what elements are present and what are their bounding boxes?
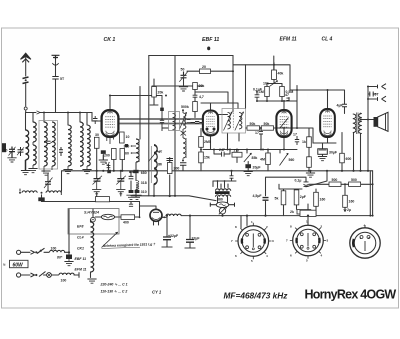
resistor (CL4 grid leak) — [307, 137, 312, 148]
wire dropper coil top — [90, 220, 92, 222]
wire dropper coil bottom — [90, 272, 92, 278]
capacitor (osc coupling blob) — [107, 170, 111, 173]
resistor 500 no.1 — [329, 182, 341, 186]
wire audio pot ground — [247, 162, 249, 171]
wire dropper box drop — [68, 209, 70, 253]
capacitor 4.7 (line) — [129, 204, 133, 206]
node junctions detector row — [260, 127, 262, 129]
ground — [116, 190, 125, 194]
resistor 20k (osc) — [152, 87, 157, 98]
wire divider top — [267, 63, 282, 87]
mains choke 2 — [46, 191, 61, 193]
wire osc core drop — [139, 87, 141, 140]
svg-text:220-240 ∿ ... C 1: 220-240 ∿ ... C 1 — [100, 283, 128, 287]
resistor 5k — [281, 191, 286, 205]
svg-text:310: 310 — [141, 190, 147, 194]
potentiometer volume arrow — [244, 153, 252, 162]
tube EFM11 — [276, 110, 291, 137]
svg-text:200: 200 — [104, 154, 110, 158]
wire mains filter line — [42, 202, 140, 205]
trimmer arrow — [149, 151, 158, 162]
svg-text:100: 100 — [51, 247, 57, 251]
svg-text:400: 400 — [123, 221, 129, 225]
plug row 2 — [17, 273, 21, 277]
wire speaker jack line — [361, 87, 377, 171]
svg-text:50k: 50k — [264, 122, 270, 126]
antenna 1 plug — [24, 107, 27, 110]
wire CL4 bottom — [297, 128, 336, 171]
capacitor 30uF — [318, 149, 328, 155]
ground — [244, 172, 253, 176]
coil (osc feedback) — [136, 181, 139, 190]
wire chassis bus — [62, 170, 373, 172]
svg-text:680: 680 — [141, 171, 147, 175]
node tap stubs — [132, 146, 137, 153]
ground — [87, 279, 96, 283]
wire socket feed stubs — [241, 204, 308, 228]
capacitor (osc tank) — [133, 170, 138, 173]
coil osc primary — [173, 114, 176, 130]
svg-text:47: 47 — [285, 93, 289, 97]
svg-text:110-130 ∿ ... C 2: 110-130 ∿ ... C 2 — [101, 290, 128, 294]
resistor (CL4 cathode) — [307, 157, 312, 168]
headphone jack 2 — [378, 96, 387, 102]
wire coil stubs — [26, 113, 88, 131]
wire dial lamp drop — [222, 214, 224, 216]
ground — [318, 157, 327, 161]
coil osc tank — [136, 139, 139, 162]
wire input coil top bus — [40, 112, 88, 114]
socket 2 pin numbers — [286, 220, 329, 263]
wire CK1 mixer lines to EBF11 — [119, 118, 204, 120]
wire heater rail — [131, 196, 216, 201]
resistor 15k — [199, 152, 204, 163]
socket 3 pin numbers — [360, 224, 371, 241]
capacitor 302 — [129, 172, 134, 179]
wire CL4 grid feed — [290, 86, 345, 144]
trimmer capacitor (IF adj 1) — [94, 179, 101, 182]
coil IF1 primary — [228, 113, 231, 129]
headphone jack 1 — [378, 84, 387, 90]
node dot EBF11 — [207, 47, 210, 51]
oscillator transformer box — [169, 112, 180, 131]
wire trimmer feeds — [97, 171, 137, 197]
wire filter cap 2 leads — [189, 216, 191, 248]
svg-text:100: 100 — [61, 279, 67, 283]
svg-text:32µF: 32µF — [192, 237, 201, 241]
wire CK1 grid — [88, 113, 102, 122]
svg-text:EFM 11: EFM 11 — [280, 37, 297, 43]
svg-text:500: 500 — [351, 178, 357, 182]
svg-text:10k: 10k — [263, 82, 269, 86]
resistor 300 — [167, 163, 172, 174]
wire decoupling rail — [309, 184, 373, 195]
capacitor 17 — [259, 131, 263, 134]
svg-text:30: 30 — [158, 163, 162, 167]
svg-text:500: 500 — [332, 178, 338, 182]
resistor 4M — [266, 153, 271, 165]
trimmer capacitor 50 — [181, 72, 187, 78]
svg-text:20k: 20k — [199, 84, 205, 88]
wire osc grid line — [152, 79, 203, 87]
resistor 160 no.1 — [314, 192, 319, 206]
capacitor (line to chassis) — [66, 255, 72, 260]
capacitor 47 — [193, 95, 198, 97]
ground — [41, 171, 50, 175]
coil L6 — [80, 122, 83, 166]
svg-text:277: 277 — [234, 149, 240, 153]
wire antenna 2 lead-in — [55, 60, 57, 113]
socket EBF11/EFM11 pinout — [235, 223, 271, 259]
svg-text:CL4: CL4 — [77, 236, 84, 240]
svg-text:CY 1: CY 1 — [152, 290, 162, 295]
ground — [132, 195, 141, 199]
resistor 10k (CK1 screen) — [120, 132, 125, 143]
svg-text:15k: 15k — [204, 156, 210, 160]
ground — [92, 190, 101, 194]
rectifier CY1 — [150, 209, 162, 221]
capacitor 5T (jack) — [370, 92, 373, 97]
wire screen feed — [187, 70, 233, 72]
coil L3 — [44, 122, 47, 166]
trimmer capacitor (IF adj 2) — [117, 179, 124, 182]
wire — [119, 123, 204, 125]
coil L2b — [33, 145, 36, 165]
capacitor 32uF no.2 — [186, 240, 194, 243]
svg-text:30: 30 — [95, 133, 99, 137]
resistor 2k5 (socket feed) — [300, 210, 316, 216]
switch lamp row 2 — [39, 272, 46, 277]
ground — [28, 169, 37, 173]
ground — [82, 170, 91, 174]
svg-text:2k: 2k — [290, 210, 294, 214]
capacitor 247 — [214, 152, 230, 157]
potentiometer 560 — [280, 154, 289, 166]
svg-text:2M5: 2M5 — [204, 140, 211, 144]
trimmer cross — [181, 131, 187, 136]
shield box (band filter) — [39, 121, 58, 170]
tube CL4 — [320, 109, 335, 137]
svg-text:30µF: 30µF — [329, 151, 338, 155]
selector arrow — [102, 232, 118, 247]
wire switch row 2 — [21, 273, 79, 278]
capacitor 2uF (box) — [294, 190, 299, 205]
resistor 2M5 — [199, 137, 204, 148]
dropper box SHYB24 — [68, 209, 119, 234]
trimmer capacitor (aerial pad) — [18, 147, 24, 156]
svg-text:50k: 50k — [250, 122, 256, 126]
capacitor (osc pad) — [59, 147, 63, 156]
svg-text:0,1M: 0,1M — [256, 90, 264, 94]
resistor 50k (diode load 2) — [261, 126, 273, 130]
wire IF1 B+ drop — [245, 65, 247, 109]
svg-text:60W: 60W — [13, 262, 25, 268]
wire ballast links — [93, 209, 140, 218]
node junctions chassis bus left — [96, 170, 98, 172]
wire AVC bus — [257, 97, 297, 111]
wire long vertical — [174, 56, 176, 196]
wire osc bottoms — [136, 158, 170, 197]
svg-text:CL 4: CL 4 — [322, 37, 333, 43]
svg-text:330: 330 — [124, 144, 130, 148]
resistor 30 (CK1 bias) — [94, 137, 99, 148]
capacitor 5T (antenna 2) — [52, 77, 58, 80]
svg-text:+32µF: +32µF — [168, 234, 179, 238]
antenna 1 connector break — [23, 77, 29, 84]
node junctions AF bus — [200, 149, 202, 151]
svg-text:4,5µF: 4,5µF — [253, 194, 263, 198]
coil 100 row 1 — [50, 250, 65, 252]
potentiometer arrow — [270, 81, 278, 86]
svg-text:560: 560 — [289, 158, 295, 162]
capacitor 277 (box) — [232, 152, 242, 157]
capacitor grid CK1 — [93, 116, 98, 124]
svg-text:4M: 4M — [260, 158, 265, 162]
trimmer capacitor (mains) — [45, 182, 51, 185]
wire volume bus — [203, 136, 297, 163]
resistor 0.1M — [265, 87, 270, 97]
resistor 200 — [112, 149, 117, 160]
capacitor 20uF — [245, 164, 251, 168]
svg-text:CK1: CK1 — [77, 247, 84, 251]
node junctions screen divider — [283, 100, 285, 102]
capacitor 0.1uF (CK1 cathode) — [101, 150, 106, 154]
tube EBF11 — [203, 111, 218, 136]
svg-text:EFM 11: EFM 11 — [75, 268, 87, 272]
speaker — [374, 117, 378, 127]
node CK1 anode — [109, 95, 111, 97]
svg-text:1k: 1k — [302, 140, 306, 144]
capacitor (filter coupling) — [44, 141, 52, 143]
svg-text:20µF: 20µF — [253, 166, 262, 170]
capacitor 4.7 (padder) — [107, 166, 111, 168]
wire ground stub right — [310, 171, 312, 173]
svg-text:318: 318 — [141, 181, 147, 185]
svg-text:5k: 5k — [275, 197, 279, 201]
capacitor 0.1uF (tone) — [304, 179, 309, 186]
capacitor series (padder) — [167, 159, 174, 161]
resistor 5M — [193, 102, 198, 112]
socket CY1 pinout — [350, 225, 380, 258]
antenna 1 — [21, 53, 31, 59]
capacitor 4.5uF — [263, 198, 269, 201]
capacitor 0.1uF (AVC) — [255, 91, 260, 101]
svg-text:17: 17 — [255, 131, 259, 135]
capacitor grid EBF11 — [191, 122, 204, 124]
svg-text:247: 247 — [219, 148, 225, 152]
ground — [126, 195, 135, 199]
svg-text:HornyRex 4OGW: HornyRex 4OGW — [305, 287, 397, 301]
svg-text:17: 17 — [293, 133, 297, 137]
resistor 20k — [193, 83, 198, 90]
resistor (line filter box) — [96, 197, 110, 202]
wire detector row — [228, 101, 298, 150]
coil IF1 secondary — [239, 113, 242, 129]
svg-text:80*: 80* — [57, 256, 63, 260]
svg-text:50: 50 — [181, 68, 185, 72]
svg-text:4,7: 4,7 — [105, 162, 110, 166]
wire CK1 cathode stubs — [97, 148, 123, 171]
tuning arrows IF1 — [224, 112, 244, 131]
capacitor 4uF (to output) — [342, 104, 347, 107]
svg-text:2µ: 2µ — [347, 208, 351, 212]
svg-text:0,1µ: 0,1µ — [295, 179, 302, 183]
coil L1 aerial primary — [26, 130, 29, 160]
svg-text:360: 360 — [217, 198, 223, 202]
wire transformer bottom stubs — [210, 181, 234, 205]
heater transformer — [216, 189, 231, 191]
pilot lamp — [91, 217, 96, 222]
node dots — [129, 171, 131, 173]
wire CY1 cathode — [154, 217, 167, 225]
resistor 400 — [121, 215, 135, 220]
svg-text:40k: 40k — [278, 72, 284, 76]
capacitor (hum) — [230, 176, 234, 178]
ground (output line) — [306, 173, 315, 177]
coil L7 — [87, 125, 90, 166]
wire EFM11 cathode — [268, 137, 284, 171]
mains choke 1 — [22, 191, 37, 193]
svg-text:CK 1: CK 1 — [104, 37, 116, 43]
svg-text:20: 20 — [202, 65, 206, 69]
lamp box 60W — [10, 260, 29, 267]
wire filter cap 1 leads — [166, 216, 168, 247]
switch row 1 — [37, 248, 45, 253]
node junctions HT bus — [221, 215, 223, 217]
resistor 50k (diode load 1) — [247, 126, 260, 130]
wire B+ upper rail — [233, 56, 290, 90]
wire HT bus — [181, 215, 372, 217]
node junctions chassis bus right — [308, 170, 310, 172]
svg-text:2µF: 2µF — [300, 195, 307, 199]
ground — [25, 160, 27, 170]
svg-text:50: 50 — [4, 149, 8, 153]
ground — [7, 158, 16, 162]
wire output B+ drop pair — [370, 171, 372, 216]
coil osc tank lower — [183, 138, 186, 158]
coil padding — [154, 145, 157, 184]
IF transformer 1 box — [222, 109, 246, 134]
capacitor 47 — [286, 98, 289, 100]
wire CK1 anode to osc transformer — [110, 96, 162, 110]
svg-text:10: 10 — [126, 135, 130, 139]
tube CK1 — [102, 110, 119, 137]
coil L4 — [52, 122, 55, 166]
wire shield box left edge — [148, 56, 150, 196]
output transformer — [353, 114, 356, 133]
ground — [63, 170, 72, 174]
wire transformer top stubs — [213, 171, 236, 188]
svg-text:EBF 11: EBF 11 — [75, 257, 87, 261]
svg-text:EBF 11: EBF 11 — [202, 37, 219, 43]
ballast lamp — [101, 214, 114, 219]
wire shield box top edge — [149, 56, 233, 112]
resistor 0.5M — [280, 87, 285, 97]
svg-text:600: 600 — [346, 157, 352, 161]
trimmer capacitor 50 (far left) — [9, 147, 15, 158]
capacitor 310 blob — [135, 190, 140, 193]
wire output transformer legs — [342, 133, 361, 171]
resistor (osc grid) — [120, 149, 125, 160]
scale lamp oval — [216, 202, 228, 208]
svg-text:MF=468/473 kHz: MF=468/473 kHz — [224, 291, 289, 301]
svg-text:60: 60 — [125, 151, 129, 155]
dropper tapped coil — [91, 222, 94, 272]
capacitor 318 blob — [129, 190, 134, 193]
dial lamp — [219, 208, 225, 214]
tube pins CK1 — [107, 137, 114, 144]
resistor 40k — [272, 70, 277, 80]
resistor 600 — [340, 153, 345, 163]
wire EBF11 plate — [218, 114, 228, 116]
magic eye line — [280, 118, 289, 129]
svg-text:85k: 85k — [252, 156, 258, 160]
terminal block (page edge) — [2, 143, 6, 152]
wire mains choke junction — [20, 171, 62, 202]
wire EBF11 shield lines — [195, 92, 238, 110]
svg-text:160: 160 — [349, 200, 355, 204]
wire RC legs — [279, 184, 345, 215]
node junctions aerial bus — [43, 112, 45, 114]
svg-text:S.HYB24: S.HYB24 — [84, 211, 99, 215]
antenna 2 top — [52, 55, 60, 59]
svg-text:20k: 20k — [158, 91, 164, 95]
filter choke — [166, 214, 181, 216]
socket 1 pin numbers — [231, 220, 274, 263]
resistor 160 no.2 — [343, 195, 348, 207]
socket CK1/CL4 pinout — [290, 222, 326, 258]
capacitor (screen bypass) — [125, 144, 128, 147]
wire tone cap line — [266, 171, 328, 216]
plug row 1 — [17, 250, 21, 254]
arrow 2u — [344, 209, 347, 211]
svg-text:EF8: EF8 — [77, 225, 83, 229]
wire switch row 1 — [21, 252, 69, 254]
svg-text:160: 160 — [320, 198, 326, 202]
svg-text:300: 300 — [174, 167, 180, 171]
wire EBF11 left stubs — [150, 90, 201, 171]
svg-text:500k: 500k — [181, 105, 189, 109]
svg-text:4µF: 4µF — [337, 104, 344, 108]
connector arrow (antenna to coil) — [37, 111, 41, 114]
coil L2a — [33, 122, 36, 142]
coil osc secondary — [183, 113, 186, 129]
svg-text:4,7: 4,7 — [199, 95, 204, 99]
wire antenna 1 lead-in — [26, 58, 36, 113]
coil L5 — [68, 125, 71, 166]
resistor 2k — [297, 210, 311, 214]
resistor 20 — [200, 69, 211, 74]
node junctions heater rail — [135, 195, 137, 197]
capacitor 32uF no.1 — [163, 237, 171, 240]
capacitor 17 (EFM) — [295, 136, 299, 145]
resistor 500 no.2 — [349, 182, 361, 186]
capacitor (mains bypass) — [38, 197, 44, 201]
feed column with capacitor — [162, 96, 169, 132]
coil 100 row 2 — [59, 273, 74, 275]
wire CY1 anode loop — [140, 202, 157, 218]
